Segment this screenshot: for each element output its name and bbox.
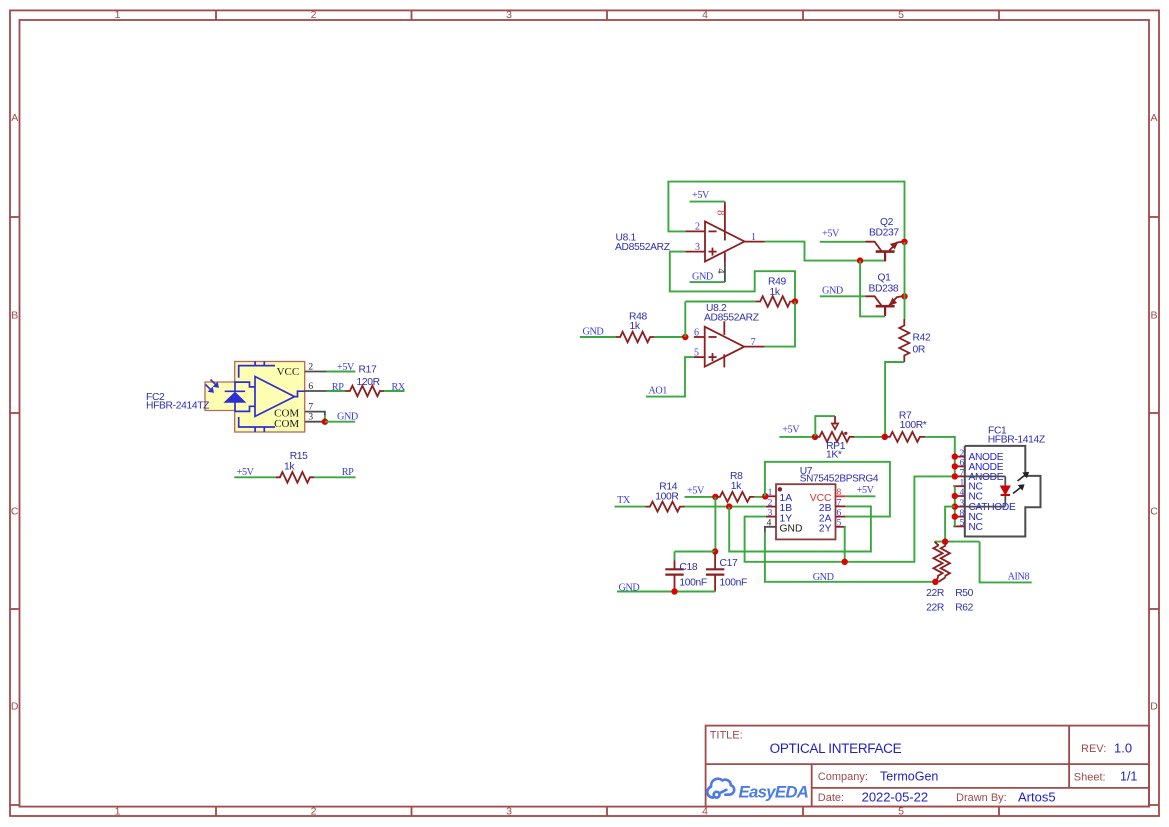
svg-text:NC: NC [969, 522, 983, 533]
svg-text:120R: 120R [357, 377, 380, 388]
svg-text:8: 8 [837, 488, 842, 498]
svg-text:6: 6 [960, 459, 965, 469]
svg-text:6: 6 [694, 328, 699, 339]
svg-text:NC: NC [969, 491, 983, 502]
svg-text:+5V: +5V [857, 485, 875, 496]
svg-text:Artos5: Artos5 [1018, 790, 1056, 805]
svg-text:Drawn By:: Drawn By: [956, 792, 1007, 804]
svg-text:Sheet:: Sheet: [1074, 772, 1106, 784]
svg-text:C: C [1150, 506, 1158, 518]
svg-text:AD8552ARZ: AD8552ARZ [615, 242, 670, 253]
svg-text:R50: R50 [955, 588, 973, 599]
svg-text:D: D [1150, 701, 1158, 713]
svg-text:+5V: +5V [822, 228, 840, 239]
svg-text:100R*: 100R* [900, 420, 927, 431]
svg-text:100nF: 100nF [720, 578, 748, 589]
svg-text:TermoGen: TermoGen [880, 770, 938, 784]
svg-text:100R: 100R [655, 491, 678, 502]
svg-text:COM: COM [274, 418, 299, 430]
svg-text:5: 5 [898, 9, 904, 21]
svg-text:BD238: BD238 [869, 284, 899, 295]
svg-text:B: B [11, 310, 18, 322]
svg-text:REV:: REV: [1081, 743, 1106, 755]
svg-text:HFBR-1414Z: HFBR-1414Z [988, 435, 1045, 446]
svg-text:HFBR-2414TZ: HFBR-2414TZ [146, 401, 209, 412]
svg-text:7: 7 [751, 337, 756, 348]
svg-text:5: 5 [837, 519, 842, 529]
svg-text:C18: C18 [679, 562, 697, 573]
svg-text:TITLE:: TITLE: [710, 730, 743, 742]
svg-text:+5V: +5V [237, 467, 255, 478]
svg-text:+5V: +5V [687, 485, 705, 496]
svg-text:GND: GND [583, 326, 604, 337]
svg-text:1K*: 1K* [826, 449, 842, 460]
svg-text:1: 1 [115, 9, 121, 21]
svg-text:2: 2 [308, 362, 313, 372]
svg-text:3: 3 [768, 509, 773, 519]
svg-text:3: 3 [308, 413, 313, 423]
svg-text:2: 2 [768, 499, 773, 509]
svg-text:RX: RX [392, 382, 406, 393]
svg-text:8: 8 [714, 210, 725, 215]
svg-text:1: 1 [751, 232, 756, 243]
svg-text:GND: GND [813, 572, 834, 583]
svg-text:2022-05-22: 2022-05-22 [862, 790, 929, 805]
svg-text:D: D [11, 701, 19, 713]
svg-text:2: 2 [311, 806, 317, 818]
svg-text:GND: GND [780, 524, 803, 535]
svg-text:1k: 1k [731, 481, 742, 492]
svg-text:OPTICAL INTERFACE: OPTICAL INTERFACE [770, 741, 902, 756]
svg-text:5: 5 [694, 348, 699, 359]
svg-text:B: B [1150, 310, 1157, 322]
svg-text:AO1: AO1 [648, 386, 667, 397]
svg-text:GND: GND [619, 583, 640, 594]
svg-text:1k: 1k [630, 321, 641, 332]
svg-text:1k: 1k [284, 461, 295, 472]
svg-text:4: 4 [960, 488, 965, 498]
svg-text:3: 3 [960, 499, 965, 509]
svg-text:0R: 0R [913, 344, 925, 355]
svg-text:+5V: +5V [692, 190, 710, 201]
svg-text:3: 3 [506, 806, 512, 818]
svg-text:7: 7 [960, 469, 965, 479]
svg-text:AIN8: AIN8 [1008, 571, 1030, 582]
svg-text:8: 8 [960, 509, 965, 519]
svg-text:GND: GND [692, 271, 713, 282]
svg-text:1k: 1k [770, 287, 781, 298]
svg-text:A: A [11, 112, 18, 124]
svg-text:R42: R42 [913, 332, 931, 343]
svg-text:GND: GND [822, 285, 843, 296]
svg-text:2: 2 [960, 449, 965, 459]
svg-text:RP: RP [332, 382, 344, 393]
svg-text:+5V: +5V [337, 362, 355, 373]
svg-text:4: 4 [702, 9, 708, 21]
svg-text:5: 5 [960, 519, 965, 529]
svg-text:2: 2 [695, 222, 700, 233]
svg-text:3: 3 [506, 9, 512, 21]
svg-text:1: 1 [115, 806, 121, 818]
svg-text:7: 7 [837, 499, 842, 509]
svg-text:7: 7 [308, 402, 313, 412]
svg-text:100nF: 100nF [679, 578, 707, 589]
svg-text:Company:: Company: [818, 771, 868, 783]
svg-text:1.0: 1.0 [1114, 741, 1132, 756]
svg-text:22R: 22R [926, 603, 944, 614]
svg-text:GND: GND [337, 411, 358, 422]
svg-text:SN75452BPSRG4: SN75452BPSRG4 [800, 474, 879, 485]
svg-text:VCC: VCC [277, 366, 300, 378]
svg-text:Date:: Date: [818, 792, 844, 804]
svg-text:4: 4 [767, 519, 772, 529]
svg-text:AD8552ARZ: AD8552ARZ [704, 313, 759, 324]
svg-text:3: 3 [695, 242, 700, 253]
svg-text:2: 2 [311, 9, 317, 21]
svg-text:2Y: 2Y [819, 524, 832, 535]
svg-text:1: 1 [960, 478, 965, 488]
svg-text:6: 6 [837, 509, 842, 519]
svg-text:R62: R62 [955, 603, 973, 614]
svg-text:C: C [11, 506, 19, 518]
svg-text:Q1: Q1 [878, 272, 892, 283]
svg-text:R17: R17 [359, 365, 377, 376]
svg-text:BD237: BD237 [869, 227, 899, 238]
svg-text:EasyEDA: EasyEDA [739, 782, 809, 801]
svg-text:+5V: +5V [782, 425, 800, 436]
svg-text:RP: RP [342, 467, 354, 478]
svg-text:A: A [1150, 112, 1157, 124]
svg-text:4: 4 [715, 268, 726, 274]
svg-text:6: 6 [308, 382, 313, 392]
svg-text:TX: TX [617, 495, 631, 506]
svg-text:C17: C17 [720, 558, 738, 569]
svg-text:22R: 22R [926, 588, 944, 599]
svg-text:1/1: 1/1 [1120, 770, 1137, 784]
